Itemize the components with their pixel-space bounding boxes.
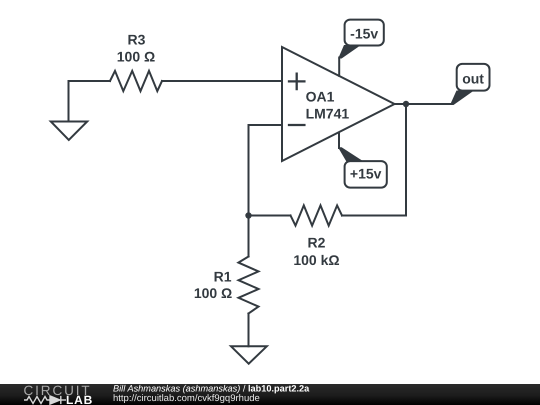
junction: output node [403, 101, 409, 107]
svg-text:LAB: LAB [66, 393, 93, 405]
footer bar [0, 384, 540, 405]
wire: positive supply stub [338, 58, 340, 76]
svg-text:out: out [462, 71, 484, 87]
svg-text:100 Ω: 100 Ω [117, 49, 155, 65]
logo resistor-diode glyph [24, 396, 66, 404]
wire: inverting input [249, 125, 283, 216]
svg-text:R3: R3 [128, 31, 146, 47]
wire: GND1 to R3 left [69, 80, 111, 82]
svg-text:100 kΩ: 100 kΩ [293, 252, 339, 268]
wire: op-amp output [395, 103, 453, 105]
svg-text:OA1: OA1 [306, 88, 335, 104]
wire: negative supply stub [338, 133, 340, 149]
ground GND2 [231, 346, 267, 363]
svg-text:-15v: -15v [350, 26, 378, 42]
wire: feedback right vertical [405, 104, 407, 216]
junction: inverting feedback node [245, 212, 251, 218]
op-amp OA1 [282, 47, 395, 161]
svg-text:LM741: LM741 [306, 105, 350, 121]
ground GND1 [51, 81, 87, 140]
svg-text:R1: R1 [214, 268, 232, 284]
wire: R1 bottom to GND2 [248, 314, 250, 347]
wire: node to R1 top [248, 216, 250, 257]
resistor R2 [291, 205, 343, 225]
resistor R3 [110, 71, 162, 91]
wire: R2 right to feedback [342, 215, 406, 217]
net flag out [450, 64, 490, 105]
svg-text:100 Ω: 100 Ω [194, 285, 232, 301]
svg-text:Bill Ashmanskas (ashmanskas) /: Bill Ashmanskas (ashmanskas) / lab10.par… [113, 383, 310, 393]
wire: R3 to op-amp non-inverting input [162, 80, 282, 82]
svg-text:http://circuitlab.com/cvkf9gq9: http://circuitlab.com/cvkf9gq9rhude [113, 393, 260, 404]
net flag +15v [338, 147, 387, 187]
resistor R1 [238, 257, 258, 314]
wire: inverting node to R2 left [249, 215, 291, 217]
net flag -15v [338, 20, 384, 59]
svg-text:R2: R2 [308, 235, 326, 251]
svg-text:+15v: +15v [350, 166, 382, 182]
